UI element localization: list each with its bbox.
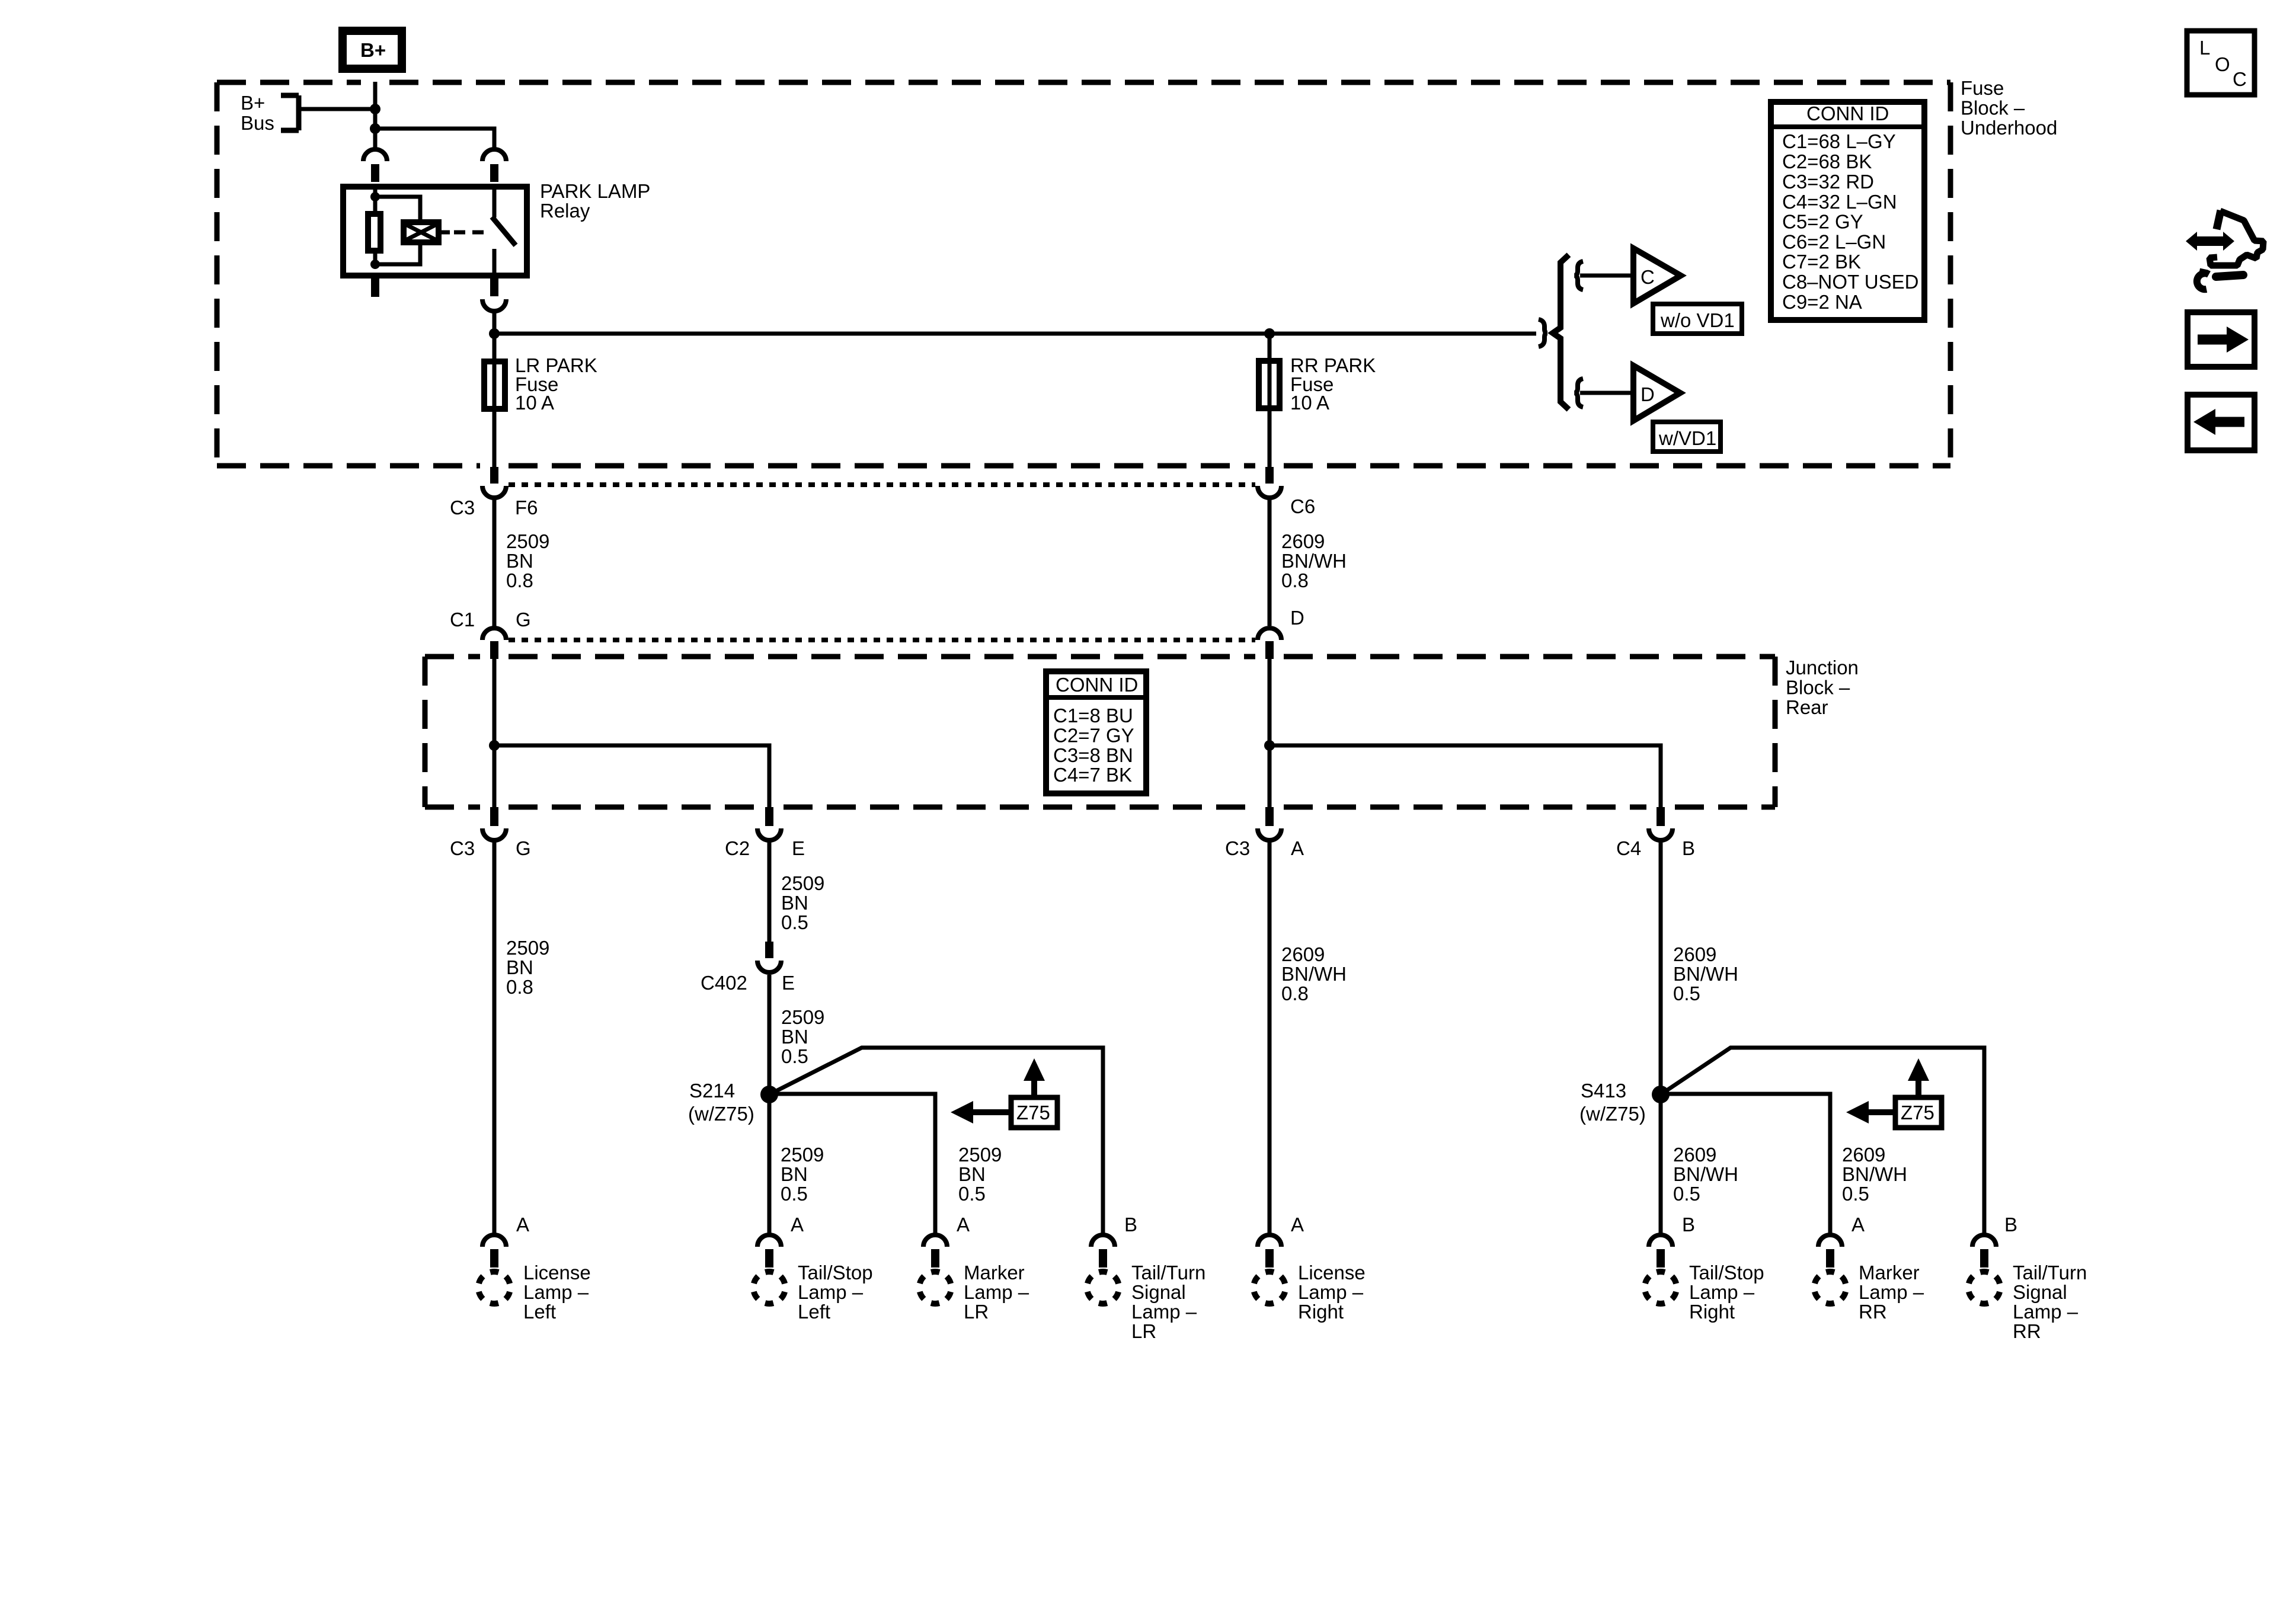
lamp connector tail/turn RR [1968,1214,2087,1342]
svg-text:C402: C402 [701,972,747,994]
svg-text:Block –: Block – [1786,677,1850,699]
relay pin stub bottom left [371,277,379,297]
wire branch to C2 [494,745,769,807]
svg-text:Underhood: Underhood [1961,117,2057,139]
svg-text:C4: C4 [1616,837,1641,859]
resistor element [368,214,380,251]
wire to triangle C [1580,274,1633,278]
svg-text:(w/Z75): (w/Z75) [1579,1103,1646,1125]
connector C402 pin [765,942,773,958]
svg-text:C3=8 BN: C3=8 BN [1053,744,1133,766]
svg-text:D: D [1290,607,1304,629]
svg-text:D: D [1641,383,1655,405]
node dot right junction [1264,740,1275,751]
CONN ID table fuse block [1768,102,1927,320]
wire to triangle D [1580,391,1633,395]
svg-text:Lamp –: Lamp – [2013,1301,2078,1323]
connector C3/G cup [482,828,506,840]
connector C6 cup [1258,486,1281,498]
node junction dot [370,123,380,134]
wire branch to C4 [1269,745,1661,807]
label C3 G [450,837,531,859]
label C4 B [1616,837,1695,859]
relay PARK LAMP box [343,180,650,276]
svg-text:Signal: Signal [2013,1281,2067,1303]
svg-text:A: A [516,1214,529,1235]
label S413 (w/Z75) [1579,1080,1646,1125]
svg-text:10 A: 10 A [1290,392,1329,414]
dotted harness line upper [509,482,1255,487]
svg-text:Signal: Signal [1131,1281,1186,1303]
relay coil branch wire [373,184,378,213]
svg-text:C6: C6 [1290,495,1315,517]
brace rail end [1539,319,1547,347]
svg-text:Bus: Bus [241,112,274,134]
coil loop wire [375,197,420,264]
svg-text:License: License [1298,1262,1366,1283]
label Junction Block - Rear [1786,657,1859,718]
svg-text:BN: BN [958,1163,986,1185]
label C402 E [701,972,795,994]
CONN ID table junction block [1043,671,1149,793]
svg-text:C5=2 GY: C5=2 GY [1782,211,1863,233]
svg-text:2609: 2609 [1281,530,1325,552]
connector C402 cup [757,961,781,972]
svg-text:BN/WH: BN/WH [1281,963,1347,985]
wire C3/A down to license right [1268,842,1272,1236]
switch blade [492,217,516,245]
RR PARK fuse [1259,354,1376,414]
svg-text:C9=2 NA: C9=2 NA [1782,291,1862,313]
Z75 ground reference box right [1895,1097,1942,1128]
svg-text:PARK LAMP: PARK LAMP [540,180,650,202]
svg-text:C2=7 GY: C2=7 GY [1053,725,1134,747]
svg-text:C1=68 L–GY: C1=68 L–GY [1782,130,1896,152]
svg-text:Fuse: Fuse [1961,77,2004,99]
svg-text:Block –: Block – [1961,97,2025,119]
svg-text:G: G [516,609,531,630]
svg-text:2509: 2509 [506,530,549,552]
svg-text:0.5: 0.5 [781,911,808,933]
coil node dot top [370,192,380,201]
wire relay output down [493,313,497,359]
svg-text:C2=68 BK: C2=68 BK [1782,151,1872,172]
wire B+ down [373,82,378,148]
svg-text:(w/Z75): (w/Z75) [688,1103,754,1125]
svg-text:LR: LR [1131,1320,1156,1342]
svg-text:C1: C1 [450,609,475,630]
svg-text:A: A [1291,837,1304,859]
svg-text:0.5: 0.5 [1673,982,1700,1004]
svg-text:RR: RR [1859,1301,1887,1323]
svg-text:w/o VD1: w/o VD1 [1660,309,1735,331]
wire branch marker LR [769,1094,935,1235]
wire resistor bottom [373,252,378,264]
connector C3/F6 cup [482,486,506,498]
connector arc relay pin left [363,149,387,182]
svg-text:Left: Left [523,1301,556,1323]
wire C2 to C402 [768,842,772,942]
connector C1/G pin [490,641,498,659]
svg-text:0.5: 0.5 [1673,1183,1700,1205]
svg-text:2609: 2609 [1842,1144,1885,1166]
svg-text:S413: S413 [1581,1080,1626,1102]
svg-text:B+: B+ [360,39,386,61]
brace hook lower [1575,379,1583,407]
svg-text:Right: Right [1689,1301,1735,1323]
label 2609 BN/WH 0.8 column [1281,943,1347,1004]
svg-text:BN/WH: BN/WH [1673,1163,1738,1185]
svg-text:LR: LR [964,1301,989,1323]
wire junction right vertical [1268,658,1272,807]
label 2509 BN 0.5 marker [958,1144,1002,1205]
connector cup relay output [482,299,506,311]
brace hook upper [1575,261,1583,290]
icon double arrow [2186,232,2234,251]
svg-text:A: A [957,1214,970,1235]
svg-text:A: A [791,1214,804,1235]
svg-text:Lamp –: Lamp – [798,1281,864,1303]
svg-text:BN/WH: BN/WH [1281,550,1347,572]
lamp connector tail/turn LR [1087,1214,1205,1342]
svg-text:CONN ID: CONN ID [1056,674,1138,696]
fuse block underhood dashed boundary [217,82,1950,466]
wire license left long [493,842,497,1236]
wire rail horizontal [494,332,1536,336]
svg-text:F6: F6 [515,497,538,518]
svg-text:B: B [1682,1214,1695,1235]
LR PARK fuse F6 [484,354,597,414]
arrow Z75 left right-group [1846,1101,1893,1124]
switch common wire [493,184,497,217]
label S214 (w/Z75) [688,1080,754,1125]
svg-text:2509: 2509 [781,1006,824,1028]
svg-text:A: A [1851,1214,1865,1235]
label 2609 BN/WH 0.5 marker RR [1842,1144,1907,1205]
w/VD1 option box [1653,422,1721,452]
wire C4/B down to S413 [1659,842,1663,1094]
svg-text:Marker: Marker [1859,1262,1920,1283]
svg-text:0.8: 0.8 [1281,569,1309,591]
svg-text:BN: BN [781,1163,808,1185]
wire 2609 BN/WH 0.8 right [1268,500,1272,626]
wire bus to B+ [299,107,375,111]
svg-text:C8–NOT USED: C8–NOT USED [1782,271,1918,293]
svg-text:C: C [2233,68,2247,90]
svg-text:2609: 2609 [1673,943,1716,965]
label C3 F6 [450,497,538,518]
svg-text:L: L [2199,37,2210,59]
svg-text:Left: Left [798,1301,830,1323]
connector C3/F6 pin [490,467,498,484]
connector C6 pin [1265,467,1274,484]
svg-text:E: E [782,972,795,994]
svg-text:Tail/Turn: Tail/Turn [1131,1262,1205,1283]
svg-text:0.8: 0.8 [1281,982,1309,1004]
connector D pin [1265,641,1274,659]
svg-text:Relay: Relay [540,200,590,222]
svg-text:2609: 2609 [1281,943,1325,965]
label 2609 BN/WH 0.5 tail/stop right [1673,1144,1738,1205]
coil node dot bottom [370,260,380,269]
arrow Z75 up right-group [1908,1058,1929,1095]
brace variant split [1553,255,1569,409]
switch contact wire [493,249,497,276]
svg-text:C: C [1641,266,1655,288]
wire diagonal branch tail/turn RR [1661,1048,1984,1235]
LOC reference box [2187,31,2255,95]
svg-text:Z75: Z75 [1016,1102,1050,1124]
B+ Bus tap bracket [241,92,299,134]
wire 2509 BN 0.8 left [493,500,497,627]
connector C4/B exit pin [1657,807,1665,826]
svg-text:Marker: Marker [964,1262,1025,1283]
wire S413 down [1659,1094,1663,1235]
label 2509 BN 0.8 [506,530,549,591]
w/o VD1 option box [1653,304,1742,334]
svg-text:10 A: 10 A [515,392,554,414]
svg-text:BN/WH: BN/WH [1842,1163,1907,1185]
svg-text:Right: Right [1298,1301,1344,1323]
svg-text:Tail/Stop: Tail/Stop [1689,1262,1764,1283]
connector C2/E exit pin [765,807,773,826]
svg-text:2509: 2509 [781,1144,824,1166]
svg-text:S214: S214 [689,1080,735,1102]
svg-text:BN: BN [781,1026,808,1048]
svg-text:Lamp –: Lamp – [1131,1301,1197,1323]
label 2509 BN 0.5 lower [781,1006,824,1067]
Z75 ground reference box left [1011,1097,1057,1128]
lamp connector tail/stop left [753,1214,873,1323]
label 2609 BN/WH 0.5 upper [1673,943,1738,1004]
svg-text:C3: C3 [450,497,475,518]
nav arrow box left [2188,395,2255,450]
wire coil to switch link [442,231,450,235]
wire to relay right pin [375,129,494,148]
svg-text:G: G [516,837,531,859]
connector D arc [1258,628,1281,640]
wire fuse to connector [493,412,497,467]
svg-text:C2: C2 [725,837,750,859]
connector C3/G exit pin [490,807,498,826]
svg-text:2509: 2509 [781,872,824,894]
svg-text:0.8: 0.8 [506,976,533,998]
svg-text:Lamp –: Lamp – [1859,1281,1924,1303]
svg-text:B+: B+ [241,92,265,114]
icon wrench [2197,271,2243,289]
arrow Z75 left [951,1101,1009,1124]
splice S214 [760,1086,778,1103]
label 2509 BN 0.5 tail/stop [781,1144,824,1205]
svg-text:0.5: 0.5 [781,1183,808,1205]
svg-text:C1=8 BU: C1=8 BU [1053,705,1133,726]
svg-text:2609: 2609 [1673,1144,1716,1166]
svg-text:Junction: Junction [1786,657,1859,678]
relay output pin stub [490,276,498,296]
svg-text:BN/WH: BN/WH [1673,963,1738,985]
svg-text:License: License [523,1262,591,1283]
lamp connector license right [1253,1214,1366,1323]
svg-text:0.8: 0.8 [506,569,533,591]
svg-text:B: B [1682,837,1695,859]
B+ power symbol box [343,31,402,69]
wire diagonal branch tail/turn LR [769,1048,1103,1235]
svg-text:C4=32 L–GN: C4=32 L–GN [1782,191,1897,213]
svg-text:C4=7 BK: C4=7 BK [1053,764,1132,786]
node rail dot right [1264,328,1275,339]
svg-text:0.5: 0.5 [781,1045,808,1067]
svg-text:BN: BN [506,550,533,572]
svg-text:B: B [1124,1214,1137,1235]
wire junction left vertical [493,659,497,807]
label C2 E [725,837,805,859]
lamp connector marker RR [1814,1214,1924,1323]
nav arrow box right [2188,312,2255,367]
connector C4/B cup [1649,828,1673,840]
svg-text:C7=2 BK: C7=2 BK [1782,251,1861,273]
label 2509 BN 0.8 lamp column [506,937,549,998]
svg-text:RR: RR [2013,1320,2041,1342]
label C1 G [450,609,531,630]
svg-text:0.5: 0.5 [958,1183,986,1205]
svg-text:BN: BN [506,956,533,978]
svg-text:Tail/Stop: Tail/Stop [798,1262,873,1283]
connector arc relay pin right [482,149,506,182]
svg-text:CONN ID: CONN ID [1806,103,1889,124]
connector C3/A cup [1258,828,1281,840]
svg-text:w/VD1: w/VD1 [1658,427,1716,449]
label 2609 BN/WH 0.8 [1281,530,1347,591]
svg-text:Lamp –: Lamp – [964,1281,1029,1303]
svg-text:2509: 2509 [958,1144,1002,1166]
dotted harness line lower [509,638,1255,642]
svg-text:C3=32 RD: C3=32 RD [1782,171,1874,193]
triangle connector C [1633,248,1681,303]
label 2509 BN 0.5 upper [781,872,824,933]
connector C3/A exit pin [1265,807,1274,826]
RR PARK fuse wire down [1268,334,1272,467]
svg-text:B: B [2004,1214,2017,1235]
svg-text:A: A [1291,1214,1304,1235]
svg-text:BN: BN [781,892,808,914]
svg-text:2509: 2509 [506,937,549,959]
junction block rear dashed boundary [425,657,1775,807]
dashed actuator link [454,231,487,235]
svg-text:Z75: Z75 [1901,1102,1934,1124]
wire S214 down [768,1094,772,1235]
label Fuse Block - Underhood [1961,77,2057,139]
wire branch marker RR [1661,1094,1830,1235]
svg-text:0.5: 0.5 [1842,1183,1869,1205]
label C3 A [1225,837,1304,859]
svg-text:Lamp –: Lamp – [523,1281,589,1303]
svg-text:C3: C3 [1225,837,1250,859]
icon vehicle outline [2217,210,2221,229]
splice S413 [1652,1086,1670,1103]
svg-text:Rear: Rear [1786,696,1828,718]
svg-text:Tail/Turn: Tail/Turn [2013,1262,2087,1283]
node junction dot [370,104,380,114]
svg-text:C6=2 L–GN: C6=2 L–GN [1782,231,1886,253]
lamp connector marker LR [919,1214,1029,1323]
wire C402 to S214 [768,975,772,1094]
lamp connector license left [478,1214,591,1323]
svg-text:Lamp –: Lamp – [1689,1281,1755,1303]
triangle connector D [1633,366,1680,421]
svg-text:O: O [2215,53,2230,75]
relay coil winding box with X [404,222,439,242]
svg-text:E: E [792,837,805,859]
connector C2/E cup [757,828,781,840]
svg-text:C3: C3 [450,837,475,859]
node rail dot left [489,328,500,339]
node dot left junction [489,740,500,751]
svg-text:Lamp –: Lamp – [1298,1281,1364,1303]
lamp connector tail/stop right [1645,1214,1764,1323]
arrow Z75 up [1024,1058,1045,1095]
connector C1/G arc [482,628,506,640]
